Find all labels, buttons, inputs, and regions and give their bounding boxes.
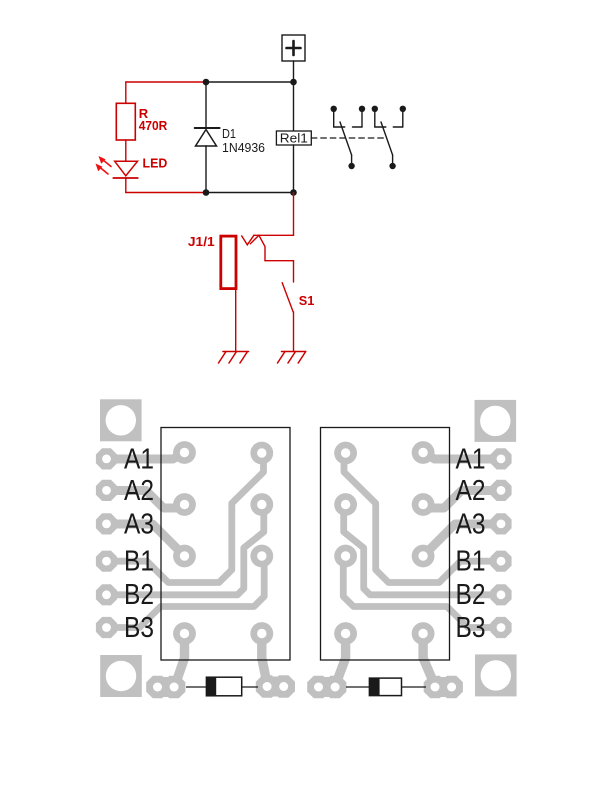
pad B3 right: [490, 617, 511, 638]
wire down to switch S1: [293, 261, 295, 282]
wire resistor to LED: [125, 140, 127, 161]
relay contact 1: [334, 109, 362, 163]
trace B3 to pin R3: [107, 556, 265, 628]
pad R2 (right module): [412, 493, 435, 516]
wire top rail black segment: [206, 81, 294, 83]
transistor arrow mark: [250, 235, 265, 260]
diode D1 cathode bar: [195, 127, 220, 129]
pad L2 (right module): [334, 493, 357, 516]
trace A2 to pin R2 (right module): [430, 491, 502, 509]
svg-text:B3: B3: [124, 612, 154, 644]
right diode pads pair 1: [307, 676, 346, 699]
diode D2 cathode band: [206, 677, 216, 696]
diode D3 body: [369, 678, 401, 696]
svg-text:A3: A3: [124, 509, 154, 541]
pad A2 left: [96, 480, 117, 501]
switch S1 blade: [282, 283, 293, 312]
pad L1: [173, 441, 196, 464]
trace A3 to pin L3: [107, 524, 185, 556]
trace B2 to pin R2: [107, 505, 264, 595]
wire emitter horizontal: [265, 260, 294, 262]
trace pin R4 to diode pad: [262, 634, 267, 682]
left module traces: [107, 453, 267, 682]
right module outline: [321, 428, 450, 661]
pad B1 left: [96, 551, 117, 572]
diode D2 lead right: [241, 686, 258, 688]
LED emission arrow 2: [100, 167, 109, 174]
pad R3 (right module): [412, 545, 435, 568]
LED cathode bar: [113, 177, 138, 179]
diode D2 body: [206, 677, 241, 696]
pad L4 (right module): [334, 622, 357, 645]
pad L3: [173, 545, 196, 568]
svg-text:LED: LED: [143, 156, 168, 171]
right module traces: [337, 453, 501, 682]
LED emission arrow 1: [103, 160, 112, 167]
pad R3: [250, 545, 273, 568]
trace A1 to pin R1 (right module): [423, 453, 501, 460]
svg-text:D1: D1: [222, 126, 236, 141]
trace B1 to pin R1: [107, 453, 264, 583]
svg-text:A1: A1: [124, 444, 154, 476]
wire bottom junction down to transistor: [293, 193, 295, 236]
svg-text:B1: B1: [456, 546, 486, 578]
node top-left junction: [203, 79, 210, 86]
left diode pads pair 1: [146, 676, 185, 699]
wire LED to bottom rail: [125, 178, 127, 193]
diode D2 lead left: [186, 686, 207, 688]
diode D3 lead right: [401, 686, 426, 688]
pad A2 right: [490, 480, 511, 501]
trace A1 to pin L1: [107, 453, 185, 460]
svg-text:1N4936: 1N4936: [222, 140, 265, 155]
wire top junction to relay coil: [293, 82, 295, 131]
pad A3 right: [490, 513, 511, 534]
diode D3 lead left: [346, 686, 370, 688]
pad A3 left: [96, 513, 117, 534]
wire bottom rail black segment: [206, 192, 294, 194]
node bottom-right junction: [290, 189, 297, 196]
relay coil Rel1 box: [276, 131, 311, 145]
wire top rail to diode D1: [205, 82, 207, 128]
pad B2 left: [96, 584, 117, 605]
trace A3 to pin R3 (right module): [423, 524, 501, 556]
svg-text:B3: B3: [456, 612, 486, 644]
transistor V mark: [242, 235, 254, 245]
resistor R 470R: [116, 103, 135, 140]
svg-text:B1: B1: [124, 546, 154, 578]
diode D1 triangle: [196, 130, 217, 147]
pad R1: [250, 442, 273, 465]
pad L2: [173, 493, 196, 516]
left module outline: [161, 428, 290, 661]
pad B1 right: [490, 551, 511, 572]
pad R1 (right module): [412, 441, 435, 464]
connector pin J1/1: [221, 236, 236, 289]
pad B2 right: [490, 584, 511, 605]
svg-text:J1/1: J1/1: [188, 234, 215, 249]
pad R2: [250, 493, 273, 516]
pad B3 left: [96, 617, 117, 638]
node top-right junction: [290, 79, 297, 86]
svg-text:A2: A2: [456, 475, 486, 507]
mounting pad top-right: [475, 400, 517, 442]
svg-text:A1: A1: [456, 444, 486, 476]
trace B2 to pin L2 (right module): [344, 505, 501, 595]
relay contact 2: [375, 109, 403, 163]
left diode pads pair 2: [256, 675, 295, 698]
mounting pad bottom-left: [100, 655, 142, 697]
node bottom-left junction: [203, 189, 210, 196]
pad R4 (right module): [412, 622, 435, 645]
wire relay coil to bottom rail: [293, 145, 295, 193]
svg-text:S1: S1: [299, 293, 315, 308]
plus sign: [287, 41, 301, 55]
pad A1 left: [96, 448, 117, 469]
wire switch S1 to ground: [293, 312, 295, 352]
svg-text:B2: B2: [456, 579, 486, 611]
wire top rail red segment: [126, 81, 206, 83]
pad L1 (right module): [334, 442, 357, 465]
battery plus terminal box: [282, 35, 305, 61]
wire plus box to top rail: [293, 61, 295, 82]
pad L3 (right module): [334, 545, 357, 568]
ground symbol left: [219, 352, 249, 364]
svg-text:Rel1: Rel1: [280, 131, 308, 146]
svg-text:B2: B2: [124, 579, 154, 611]
svg-text:A3: A3: [456, 509, 486, 541]
wire bottom rail red segment: [126, 192, 206, 194]
mounting pad bottom-right: [475, 654, 517, 696]
trace pin L4 to diode pad (right module): [337, 634, 346, 682]
right diode pads pair 2: [424, 676, 463, 699]
diode D3 cathode band: [369, 678, 379, 696]
wire to resistor R: [125, 82, 127, 103]
pad L4: [173, 622, 196, 645]
trace pin R4 to diode pad (right module): [423, 634, 433, 682]
pad R4: [250, 622, 273, 645]
mounting pad top-left: [100, 399, 142, 441]
trace pin L4 to diode pad: [177, 634, 185, 682]
wire transistor collector horizontal: [254, 234, 294, 236]
wire diode D1 to bottom rail: [205, 146, 207, 193]
wire J1/1 to ground: [235, 289, 237, 352]
pad A1 right: [490, 448, 511, 469]
trace B1 to pin L1 (right module): [344, 453, 501, 583]
dashed link relay coil to contacts: [311, 137, 386, 139]
trace A2 to pin L2: [107, 491, 179, 509]
ground symbol right: [278, 352, 306, 364]
svg-text:A2: A2: [124, 475, 154, 507]
trace B3 to pin L3 (right module): [343, 556, 501, 628]
svg-text:470R: 470R: [139, 118, 168, 133]
LED diode triangle: [115, 161, 138, 176]
